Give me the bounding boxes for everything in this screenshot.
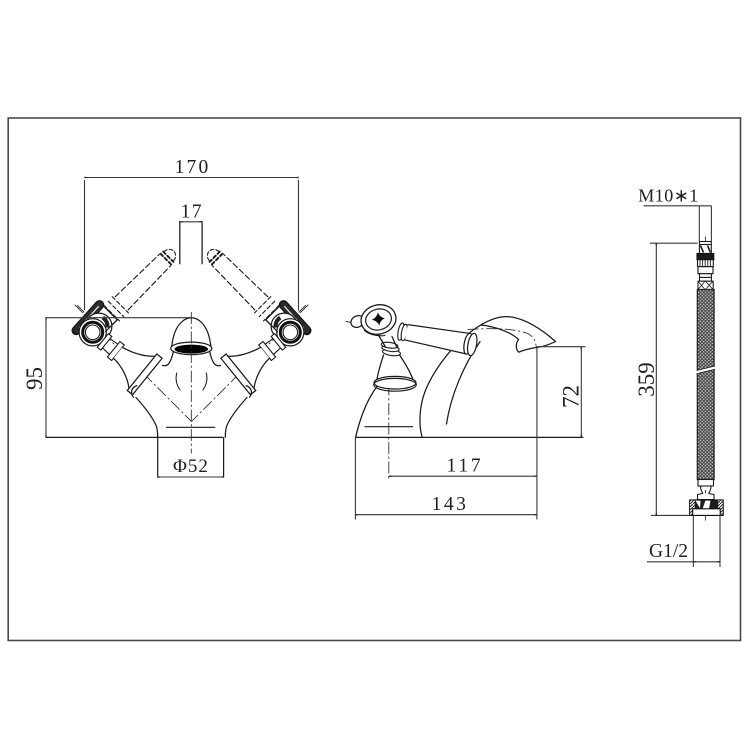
valve bell (377, 354, 414, 381)
knob face circles (79, 319, 106, 346)
interior line near base (365, 426, 413, 428)
spout foot / upper body edge (163, 352, 174, 366)
left handle half (mirrored for right) (75, 243, 191, 437)
svg-text:170: 170 (175, 157, 211, 178)
spout inner curve to body (447, 342, 481, 424)
svg-text:359: 359 (634, 362, 659, 397)
drawing border frame (8, 118, 740, 641)
svg-text:117: 117 (447, 455, 484, 476)
body left outline (356, 379, 384, 438)
dim 17 (180, 221, 202, 223)
ear behind disc (349, 313, 366, 329)
solid lever (88, 322, 162, 395)
dim phi52 : base sides (157, 437, 159, 477)
disc underside arc (365, 331, 386, 336)
spout underside and hook (482, 325, 556, 352)
dim 95 (45, 318, 47, 438)
bell mouth arc behind disc (132, 386, 137, 398)
svg-text:95: 95 (22, 367, 47, 390)
dim 72 (536, 346, 586, 348)
hose dimensions (644, 206, 721, 567)
lever (396, 320, 478, 357)
svg-text:M10∗1: M10∗1 (638, 186, 699, 206)
collar rings under knob (382, 348, 401, 356)
base top line / 95 lower reference (46, 436, 224, 438)
body interior line (166, 426, 215, 428)
stub of valve centerline beyond knob (78, 306, 85, 313)
knurled skirt band (dark) (76, 305, 99, 331)
G1/2 nut (690, 500, 724, 515)
vertical centerline (388, 384, 390, 478)
spout rim outer ellipse (171, 342, 212, 355)
svg-text:17: 17 (181, 201, 203, 222)
spout outlet (black) (175, 345, 209, 354)
dim 170 (85, 177, 299, 179)
hose centerline (704, 237, 706, 523)
dim 117 (389, 475, 537, 477)
interior arc (176, 373, 180, 390)
valve axis centerline (dash-dot 45deg) (75, 305, 191, 421)
knob neck cone (378, 334, 397, 348)
front view dimensions (46, 178, 299, 478)
knurl crescent on far side of knob (103, 318, 108, 328)
spout centreline dash-dot (468, 329, 536, 346)
dim G1/2 (647, 561, 693, 563)
svg-text:143: 143 (432, 494, 469, 515)
right handle half (mirror of left) (192, 243, 308, 437)
svg-text:Φ52: Φ52 (173, 456, 209, 477)
knob depth ring (86, 313, 112, 339)
spout neck (17mm) (180, 222, 202, 264)
svg-text:G1/2: G1/2 (649, 541, 688, 562)
svg-text:72: 72 (559, 385, 584, 408)
base line (356, 436, 583, 438)
knob block (85, 304, 118, 337)
dim 359 (650, 242, 698, 244)
star symbol on knob (372, 313, 385, 326)
dim M10*1 leader (644, 205, 712, 207)
bottom crimp collar (698, 480, 714, 487)
braid break slash (697, 366, 716, 374)
lever axis centerline stub (346, 322, 364, 325)
spout dome (172, 318, 211, 348)
knob disc (358, 301, 399, 338)
dashed lever (rotated up position) (104, 243, 182, 321)
body shoulder left outline (136, 398, 158, 438)
dim 143 (354, 437, 356, 519)
ferrule bands (697, 254, 714, 260)
body right outline merging into spout top (420, 317, 556, 438)
braided hose (697, 290, 714, 480)
threaded pipe M10 (699, 242, 711, 254)
vertical centerline (190, 313, 192, 454)
side view dimensions (355, 347, 585, 520)
